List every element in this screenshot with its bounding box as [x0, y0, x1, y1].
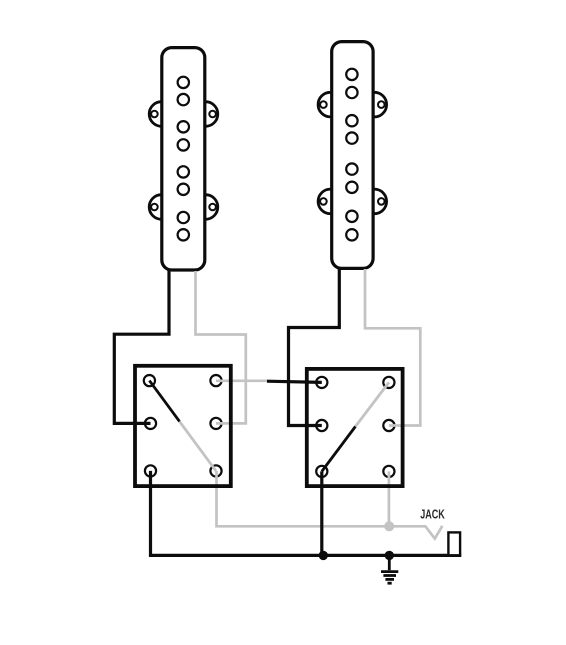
junction dot (gray, tip net) — [384, 521, 394, 531]
pickup P1 (neck) mounting ears — [149, 102, 218, 220]
pickup P2 (bridge) mounting ears — [318, 92, 387, 213]
junction dot (ground symbol) — [385, 551, 394, 560]
switch S2 lever (black half) — [322, 427, 356, 472]
switch S1 lever (black half) — [149, 381, 179, 422]
pickup P1 body — [162, 48, 205, 270]
wire: S2 terminal 6 drop to jack tip wire (gray) — [388, 471, 391, 526]
ground symbol — [381, 555, 398, 583]
wire: S1 terminal 5 to ground bus — [151, 471, 462, 556]
wire: S1 terminal 2 gray stub — [216, 379, 267, 382]
wire: P2 white lead to S2 terminal 4 (gray) — [365, 269, 420, 426]
pickup P2 pole pieces — [346, 69, 357, 241]
wire: S2 terminal 5 drop to ground bus — [320, 471, 323, 555]
switch S1 terminal 6 (bottom-right) — [210, 465, 221, 476]
pickup P1 ear screw holes — [151, 111, 216, 211]
switch S2 terminal 5 (bottom-left) — [316, 466, 327, 477]
switch S2 terminal 1 (top-left) — [316, 377, 327, 388]
wire: P1 white lead to S1 terminal 4 (gray) — [196, 271, 246, 423]
switch S2 terminal 2 (top-right) — [383, 377, 394, 388]
switch S2 lever (gray half) — [355, 382, 389, 426]
wire: P2 black lead to S2 terminal 3 — [289, 268, 340, 426]
jack body (sleeve) — [448, 532, 460, 555]
wire: S1 terminal 2 to S2 terminal 1 (black) — [267, 381, 322, 382]
wire: P1 black lead to S1 terminal 3 — [114, 270, 169, 423]
switch S2 terminal 4 (mid-right) — [383, 420, 394, 431]
switch S1 terminal 5 (bottom-left) — [145, 465, 156, 476]
switch S1 body — [135, 366, 231, 486]
switch S1 lever (gray half) — [180, 421, 217, 471]
switch S2 terminal 3 (mid-left) — [316, 420, 327, 431]
switch S1 terminal 1 (top-left) — [144, 375, 155, 386]
pickup P2 ear screw holes — [320, 101, 385, 204]
pickup P1 pole pieces — [178, 77, 189, 241]
switch S2 body — [307, 369, 403, 486]
switch S1 terminal 4 (mid-right) — [210, 418, 221, 429]
junction dot (S2 ground drop) — [319, 551, 328, 560]
switch S1 terminal 3 (mid-left) — [145, 418, 156, 429]
switch S1 terminal 2 (top-right) — [210, 375, 221, 386]
pickup P2 body — [332, 42, 373, 269]
svg-text:JACK: JACK — [420, 507, 445, 522]
switch S2 terminal 6 (bottom-right) — [383, 466, 394, 477]
wire: S1 terminal 6 to jack tip (gray) — [217, 471, 443, 539]
